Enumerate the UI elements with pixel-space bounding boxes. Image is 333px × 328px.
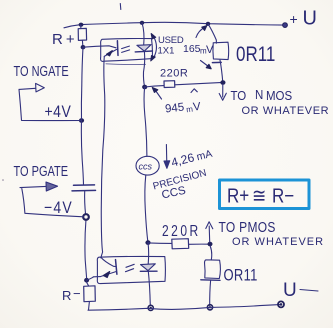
wire top rail +U	[64, 22, 285, 27]
label -4V	[44, 199, 73, 217]
wire node C to 220R bottom	[148, 242, 172, 245]
node -4V junction (circle blob)	[83, 214, 89, 220]
wire LED D1 anode from rail	[142, 23, 144, 45]
wire R+ to optocoupler U1	[83, 46, 116, 48]
speck left edge	[2, 179, 4, 181]
svg-text:0R11: 0R11	[236, 44, 275, 67]
label USED 1X1	[158, 35, 184, 57]
svg-text:TO PMOS: TO PMOS	[219, 219, 276, 235]
svg-text:N: N	[255, 87, 263, 102]
arrow to pgate	[20, 182, 58, 191]
node A (220R top left)	[142, 85, 147, 90]
resistor R6 R-	[84, 282, 96, 310]
svg-text:945: 945	[165, 102, 185, 116]
node +4V junction	[79, 118, 84, 123]
arrow 165mV to 0R11 bottom	[201, 61, 212, 69]
svg-text:U: U	[283, 280, 297, 301]
wire LED D2 cathode to rail	[148, 271, 150, 305]
label R+ approx R-	[227, 184, 294, 207]
svg-text:TO NGATE: TO NGATE	[14, 63, 69, 80]
label 945mV	[165, 100, 202, 117]
arrow to ngate	[19, 83, 44, 92]
resistor R3 220R	[164, 81, 175, 88]
wire 220R to node B	[175, 82, 223, 84]
arrow to PMOS	[206, 222, 213, 242]
wire bottom rail U-	[88, 305, 280, 311]
note box (blue)	[220, 180, 310, 209]
optocoupler U2 package	[97, 256, 165, 283]
label OR WHATEVER (top)	[242, 105, 330, 117]
wire 220R bottom to node D	[189, 243, 210, 245]
current source CCS	[136, 156, 159, 175]
label 220R top	[160, 68, 188, 80]
wire ngate L to +4V node	[19, 89, 82, 120]
label TO NGATE	[14, 63, 69, 80]
label 0R11 bottom	[224, 267, 258, 285]
wire U1 emitter long vertical	[101, 57, 105, 258]
node E (R- junction)	[84, 278, 89, 283]
svg-text:−: −	[73, 286, 81, 301]
annotation arrow used-1x1 (curved double arrow)	[151, 34, 157, 61]
transistor U2 phototransistor	[93, 258, 117, 278]
svg-text:R+: R+	[227, 184, 249, 207]
label OR WHATEVER (bottom)	[232, 236, 324, 248]
label U-	[283, 280, 297, 301]
svg-text:1X1: 1X1	[158, 46, 175, 57]
svg-text:+4V: +4V	[45, 103, 72, 121]
wire node D to 0R11 bottom	[210, 246, 212, 259]
LED D2 of U2	[140, 264, 157, 272]
wire CCS to node C	[145, 175, 148, 242]
terminal +U	[283, 23, 288, 28]
wire capacitor to -4V node	[84, 191, 87, 215]
wire node E to U2	[87, 277, 94, 280]
svg-text:TO PGATE: TO PGATE	[14, 163, 69, 180]
wire LED D1 cathode down to node A	[143, 52, 144, 87]
light coupling arrows U1	[122, 46, 130, 52]
wire node A down to CCS	[144, 87, 147, 156]
label +U	[290, 8, 317, 30]
node top rail / R+	[79, 23, 84, 27]
svg-text:OR WHATEVER: OR WHATEVER	[232, 236, 324, 248]
wire left rail R+ to +4V node	[81, 47, 83, 120]
svg-text:220R: 220R	[162, 221, 201, 239]
node 0R11/rail junction loop	[207, 305, 212, 310]
svg-text:+: +	[290, 11, 298, 27]
svg-text:U: U	[303, 8, 317, 30]
svg-text:TO: TO	[231, 88, 247, 103]
node top rail / 0R11	[206, 22, 211, 26]
resistor R4 220R bottom	[172, 239, 189, 249]
label CCS	[161, 185, 188, 202]
wire rail to resistor R2 0R11	[208, 24, 216, 43]
wire -4V node to node E	[85, 219, 87, 278]
wire pgate L to -4V node	[22, 189, 84, 217]
svg-text:MOS: MOS	[266, 88, 292, 103]
label 220R bottom	[162, 221, 201, 239]
svg-text:ccs: ccs	[139, 162, 153, 172]
svg-text:220R: 220R	[160, 68, 188, 80]
svg-text:165: 165	[183, 43, 201, 55]
node D	[208, 242, 213, 247]
wire 0R11 to node B	[220, 60, 223, 82]
node R+ / U1 collector	[81, 45, 86, 49]
optocoupler U1 package	[101, 38, 153, 61]
caret over 945mV	[191, 89, 197, 93]
arrow 165mV to 0R11 top	[196, 26, 207, 38]
svg-text:≅: ≅	[252, 184, 266, 207]
svg-text:R+: R+	[52, 31, 78, 48]
resistor R5 0R11 bottom	[201, 260, 221, 281]
node LED2/rail junction loop	[148, 305, 153, 310]
label TO PMOS	[219, 219, 276, 235]
wire node C to LED D2 anode	[147, 243, 150, 264]
label 165mV	[183, 43, 214, 56]
svg-text:−4V: −4V	[44, 199, 73, 217]
label TO N MOS	[231, 87, 293, 103]
label PRECISION	[152, 168, 208, 193]
wire node A to 220R	[145, 86, 164, 87]
svg-text:OR11: OR11	[224, 267, 258, 285]
svg-text:USED: USED	[158, 35, 184, 46]
wire +4V node to capacitor	[81, 121, 83, 185]
light coupling arrows U2	[126, 264, 135, 271]
capacitor C1	[72, 185, 96, 191]
resistor R1 R+	[78, 25, 86, 47]
svg-text:R: R	[62, 288, 71, 303]
arrow CCS current direction	[164, 145, 170, 169]
arrow to N MOS	[219, 85, 226, 101]
svg-text:OR WHATEVER: OR WHATEVER	[242, 105, 330, 117]
node B	[220, 80, 225, 85]
label R+	[52, 31, 78, 48]
speck top edge	[119, 4, 122, 10]
resistor R2 0R11	[212, 42, 228, 62]
label +4V	[45, 103, 72, 121]
label 4,26 mA	[170, 146, 214, 170]
node top rail / LED1 anode	[140, 21, 145, 25]
svg-text:R−: R−	[272, 184, 294, 207]
LED D1 of U1	[135, 45, 152, 52]
label 0R11 top	[236, 44, 275, 67]
label TO PGATE	[14, 163, 69, 180]
node C	[145, 240, 150, 245]
transistor U1 phototransistor	[104, 41, 118, 57]
arrow 945mV to wire	[152, 88, 161, 100]
terminal U-	[278, 301, 284, 307]
label R-	[62, 286, 81, 303]
wire 0R11 bottom to rail	[209, 281, 212, 306]
